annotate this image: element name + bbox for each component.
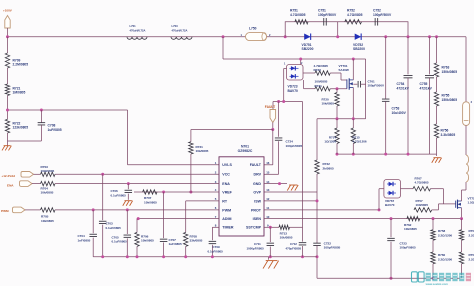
svg-text:1uF/0805: 1uF/0805 [48, 128, 62, 132]
svg-text:10k/0805: 10k/0805 [404, 227, 417, 231]
svg-text:0.1uF/0805: 0.1uF/0805 [112, 240, 128, 244]
svg-text:10k/0805: 10k/0805 [41, 219, 54, 223]
svg-text:VREF: VREF [222, 190, 232, 194]
svg-text:ISW: ISW [254, 199, 261, 203]
svg-text:PWM: PWM [222, 208, 231, 212]
svg-text:BAV70: BAV70 [385, 203, 395, 207]
svg-text:14: 14 [266, 180, 270, 184]
svg-text:5A40W: 5A40W [339, 68, 349, 72]
svg-text:1Ω/1206: 1Ω/1206 [324, 140, 336, 144]
svg-text:+12.2Vdd: +12.2Vdd [1, 174, 15, 178]
svg-text:2.2Ω/1206: 2.2Ω/1206 [438, 257, 452, 261]
svg-text:FAULT: FAULT [265, 105, 275, 109]
svg-text:ENA: ENA [222, 182, 230, 186]
svg-text:BAV70: BAV70 [288, 89, 299, 93]
svg-text:4.7Ω/1206: 4.7Ω/1206 [353, 140, 367, 144]
svg-text:0.1uF/0805: 0.1uF/0805 [106, 226, 122, 230]
svg-text:C712: C712 [290, 242, 297, 246]
svg-text:472/1kV: 472/1kV [397, 86, 410, 90]
svg-text:TIMER: TIMER [222, 226, 234, 230]
svg-text:150k/0805: 150k/0805 [442, 70, 458, 74]
svg-text:150k/0805: 150k/0805 [442, 98, 458, 102]
svg-text:GND: GND [253, 182, 261, 186]
svg-text:10k/0805: 10k/0805 [144, 200, 157, 204]
svg-text:C711: C711 [254, 242, 261, 246]
svg-text:100pF/500V: 100pF/500V [318, 13, 337, 17]
svg-text:UVLS: UVLS [222, 163, 232, 167]
svg-text:DRV: DRV [253, 173, 261, 177]
svg-text:R723: R723 [314, 68, 322, 72]
svg-text:R721: R721 [315, 84, 323, 88]
svg-text:L701: L701 [130, 24, 137, 28]
svg-text:1M/0805: 1M/0805 [13, 91, 26, 95]
svg-text:L703: L703 [172, 24, 179, 28]
svg-text:+100V: +100V [3, 9, 12, 13]
svg-text:www.seekic.com: www.seekic.com [425, 282, 449, 286]
svg-text:470pF/0805: 470pF/0805 [286, 246, 302, 250]
svg-text:1uF/0805: 1uF/0805 [169, 242, 183, 246]
svg-text:10k/0805: 10k/0805 [280, 236, 293, 240]
svg-text:PWM: PWM [1, 209, 9, 213]
svg-text:10: 10 [266, 215, 270, 219]
svg-text:0.1uF/0805: 0.1uF/0805 [208, 249, 224, 253]
svg-text:10k/0805: 10k/0805 [196, 149, 209, 153]
svg-text:4.7Ω/0805: 4.7Ω/0805 [347, 13, 363, 17]
svg-text:15: 15 [266, 171, 270, 175]
svg-text:OVP: OVP [253, 190, 261, 194]
svg-text:1000pF/0805: 1000pF/0805 [247, 246, 265, 250]
svg-text:2.2Ω: 2.2Ω [469, 233, 474, 237]
svg-text:100/0805: 100/0805 [416, 203, 429, 207]
svg-text:16: 16 [266, 161, 270, 165]
svg-text:0.1uF/0805: 0.1uF/0805 [111, 193, 127, 197]
svg-text:RT: RT [222, 199, 228, 203]
svg-text:11: 11 [266, 206, 269, 210]
svg-text:2.2Ω: 2.2Ω [469, 257, 474, 261]
svg-text:470uH/0.72A: 470uH/0.72A [130, 28, 146, 32]
svg-text:L750: L750 [249, 27, 257, 31]
svg-text:4.7Ω/0805: 4.7Ω/0805 [415, 181, 429, 185]
svg-text:OZ9982C: OZ9982C [238, 149, 253, 153]
svg-text:SB2200: SB2200 [302, 47, 314, 51]
svg-text:12: 12 [266, 197, 270, 201]
svg-text:1nF/0805: 1nF/0805 [78, 238, 91, 242]
svg-text:FAULT: FAULT [250, 163, 262, 167]
svg-text:SB2200: SB2200 [353, 47, 365, 51]
svg-text:10u/400V: 10u/400V [392, 111, 407, 115]
svg-text:10Ω/0805: 10Ω/0805 [41, 169, 55, 173]
svg-text:33k/0805: 33k/0805 [190, 239, 203, 243]
svg-text:100pF/500V: 100pF/500V [368, 84, 385, 88]
svg-text:13: 13 [266, 188, 270, 192]
svg-text:1.5Ω: 1.5Ω [468, 201, 474, 205]
svg-text:C709: C709 [213, 245, 221, 249]
svg-text:N701: N701 [241, 144, 249, 148]
svg-text:4.7Ω/0805: 4.7Ω/0805 [290, 13, 306, 17]
svg-text:100pF/500V: 100pF/500V [373, 13, 392, 17]
svg-text:100pF/0805: 100pF/0805 [400, 246, 417, 250]
svg-text:100pF/0805: 100pF/0805 [286, 144, 303, 148]
svg-text:ENA: ENA [7, 183, 14, 187]
svg-text:2k/0805: 2k/0805 [323, 166, 334, 170]
svg-text:10k/0805: 10k/0805 [141, 239, 154, 243]
svg-text:VCC: VCC [222, 173, 230, 177]
svg-text:472/1kV: 472/1kV [420, 86, 433, 90]
svg-text:SSTCMP: SSTCMP [246, 226, 262, 230]
svg-text:PROT: PROT [251, 208, 262, 212]
svg-text:3.3k/0805: 3.3k/0805 [441, 133, 456, 137]
svg-text:123k/0805: 123k/0805 [13, 126, 29, 130]
svg-text:100pF/0805: 100pF/0805 [324, 246, 341, 250]
svg-text:10k/0805: 10k/0805 [41, 191, 54, 195]
svg-text:10k/0805: 10k/0805 [322, 102, 335, 106]
svg-text:2.2M/0805: 2.2M/0805 [13, 63, 29, 67]
svg-text:470uH/0.72A: 470uH/0.72A [172, 28, 188, 32]
svg-text:ISEN: ISEN [253, 217, 262, 221]
svg-text:2.2Ω/1206: 2.2Ω/1206 [438, 233, 452, 237]
svg-text:ADIM: ADIM [222, 217, 231, 221]
